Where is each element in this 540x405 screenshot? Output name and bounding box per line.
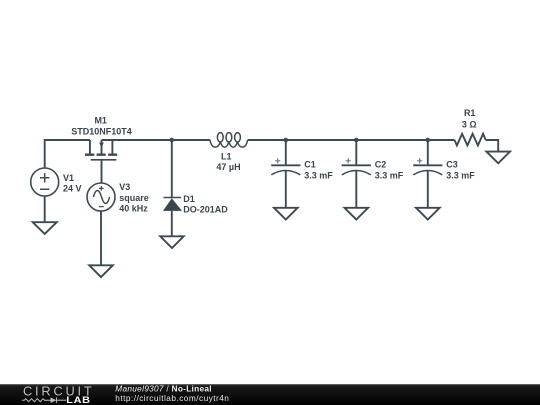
inductor L1 bbox=[210, 133, 248, 148]
svg-text:STD10NF10T4: STD10NF10T4 bbox=[71, 126, 132, 136]
svg-text:M1: M1 bbox=[94, 115, 107, 125]
svg-text:47 µH: 47 µH bbox=[216, 162, 240, 172]
svg-text:square: square bbox=[119, 193, 149, 203]
wire V3 bottom bbox=[100, 211, 102, 265]
svg-text:3.3 mF: 3.3 mF bbox=[304, 170, 333, 180]
node switch junction bbox=[170, 138, 175, 143]
wire D1 branch bbox=[171, 140, 173, 198]
svg-text:3.3 mF: 3.3 mF bbox=[375, 170, 404, 180]
svg-text:V3: V3 bbox=[119, 182, 130, 192]
svg-text:D1: D1 bbox=[183, 194, 195, 204]
ground C2 bbox=[345, 208, 369, 220]
svg-text:DO-201AD: DO-201AD bbox=[183, 205, 228, 215]
wire M1 source to L1 bbox=[102, 139, 211, 141]
node C1 junction bbox=[284, 138, 289, 143]
svg-text:C2: C2 bbox=[375, 160, 387, 170]
node C3 junction bbox=[426, 138, 431, 143]
wire C2 top lead bbox=[355, 140, 357, 164]
svg-text:C1: C1 bbox=[304, 160, 316, 170]
wire V1 top to M1 drain bbox=[45, 140, 90, 168]
wire C3 bottom lead bbox=[427, 171, 429, 208]
ground V1 bbox=[33, 222, 57, 234]
svg-text:3.3 mF: 3.3 mF bbox=[446, 170, 475, 180]
wire C1 bottom lead bbox=[285, 171, 287, 208]
diode D1 bbox=[163, 198, 182, 211]
wire C3 top lead bbox=[427, 140, 429, 164]
node C2 junction bbox=[354, 138, 359, 143]
svg-text:24 V: 24 V bbox=[63, 184, 82, 194]
ground V3 bbox=[89, 265, 113, 277]
capacitor C3 bbox=[413, 158, 442, 175]
svg-text:V1: V1 bbox=[63, 173, 74, 183]
svg-text:L1: L1 bbox=[221, 152, 232, 162]
wire C1 top lead bbox=[285, 140, 287, 164]
voltage source V3 bbox=[87, 183, 115, 211]
svg-text:LAB: LAB bbox=[66, 396, 90, 405]
svg-text:R1: R1 bbox=[464, 108, 476, 118]
ground C1 bbox=[274, 208, 298, 220]
wire C2 bottom lead bbox=[355, 171, 357, 208]
svg-text:3 Ω: 3 Ω bbox=[462, 119, 477, 129]
ground D1 bbox=[160, 236, 184, 248]
svg-text:40 kHz: 40 kHz bbox=[119, 204, 148, 214]
wire M1 gate to V3 bbox=[101, 160, 103, 183]
resistor R1 bbox=[455, 134, 486, 146]
wire D1 anode to ground bbox=[171, 211, 173, 236]
capacitor C1 bbox=[271, 158, 300, 175]
svg-text:http://circuitlab.com/cuytr4n: http://circuitlab.com/cuytr4n bbox=[115, 393, 229, 403]
transistor M1 bbox=[85, 140, 117, 160]
ground C3 bbox=[416, 208, 440, 220]
ground R1 bbox=[486, 152, 510, 164]
wire L1 to R1 bbox=[248, 139, 455, 141]
voltage source V1 bbox=[31, 168, 59, 196]
wire R1 to ground bbox=[486, 140, 499, 152]
CircuitLab logo resistor-diode motif bbox=[22, 397, 66, 403]
wire V1 bottom bbox=[44, 196, 46, 222]
capacitor C2 bbox=[342, 158, 371, 175]
svg-text:C3: C3 bbox=[446, 160, 458, 170]
